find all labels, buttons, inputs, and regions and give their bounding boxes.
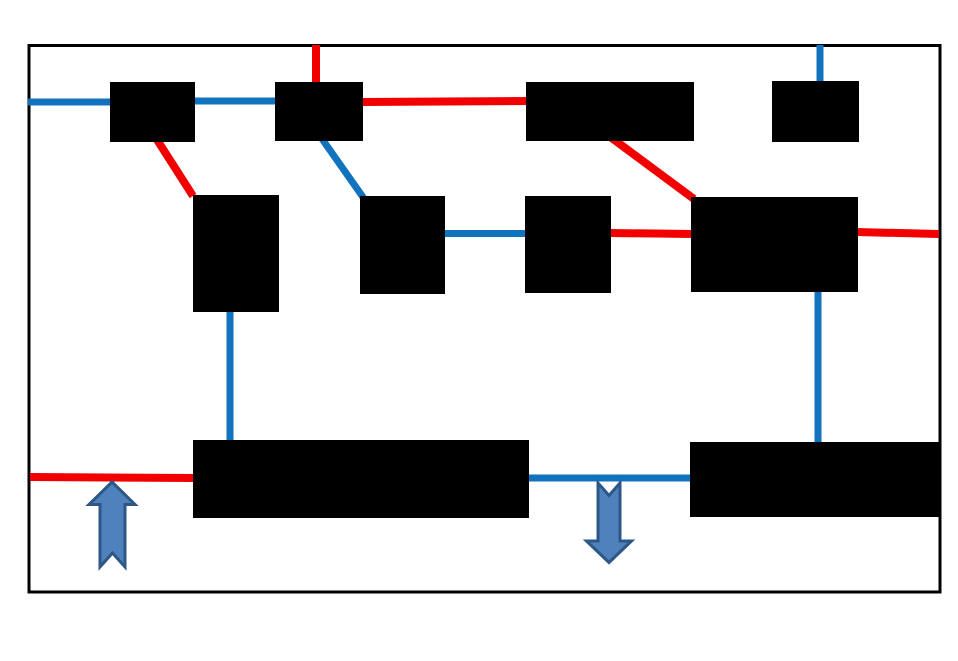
wire red diagonal box C to box H — [609, 136, 694, 199]
wire red box B to box C — [362, 101, 527, 102]
wire blue box A to box B — [194, 98, 277, 105]
box B — [275, 82, 363, 141]
wire blue top border to box D — [817, 45, 824, 83]
box F — [360, 196, 445, 294]
wire red diagonal box A to box E — [154, 135, 193, 196]
arrow up (input) — [89, 482, 135, 567]
box I — [193, 440, 529, 518]
arrow down (output) — [587, 483, 632, 563]
wire red box H to right border — [856, 232, 939, 234]
wire red box G to box H — [609, 233, 693, 234]
box J — [690, 442, 939, 517]
box C — [526, 82, 694, 141]
box G — [525, 196, 611, 293]
box E — [193, 195, 279, 312]
wire blue box H down to box J — [815, 290, 822, 444]
wire red top border to box B — [312, 45, 320, 84]
wire blue box F to box G — [443, 230, 527, 237]
wire blue left-edge to box A — [28, 99, 112, 106]
box A — [110, 82, 195, 142]
wire red left border to box I — [30, 477, 195, 478]
box D — [772, 81, 859, 142]
wire blue box E down to box I — [227, 310, 234, 442]
box H — [691, 197, 858, 292]
wire blue box I to box J — [527, 475, 692, 482]
wire blue diagonal box B to box F — [320, 136, 365, 200]
border frame — [29, 46, 940, 593]
